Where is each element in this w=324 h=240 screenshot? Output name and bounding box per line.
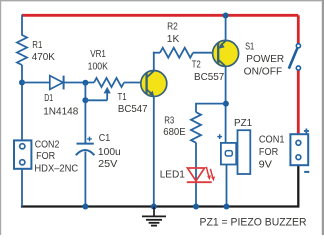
svg-text:FOR: FOR xyxy=(36,151,55,162)
svg-text:CON1: CON1 xyxy=(259,135,285,146)
svg-text:R1: R1 xyxy=(32,40,42,51)
capacitor C1 bottom curved plate xyxy=(76,150,95,155)
capacitor C1 plus sign xyxy=(87,137,92,142)
wire C1 negative lead to ground rail xyxy=(84,152,86,207)
connector CON2 body xyxy=(14,140,31,168)
connector CON1 pin 1 xyxy=(296,140,301,145)
svg-text:PZ1 = PIEZO BUZZER: PZ1 = PIEZO BUZZER xyxy=(200,217,307,229)
wire D1 cathode lead to node xyxy=(64,82,94,84)
wire D1 anode lead xyxy=(22,82,50,84)
wire red positive top rail xyxy=(22,14,298,17)
svg-text:VR1: VR1 xyxy=(90,49,106,60)
VR1 wiper arrowhead xyxy=(104,87,111,94)
switch S1 lever xyxy=(289,48,298,68)
VR1 wiper arrow stem xyxy=(106,89,108,100)
node junction T1 emitter / ground rail xyxy=(151,204,157,210)
wire T1 emitter down to ground rail xyxy=(153,96,155,207)
transistor T1 body circle xyxy=(141,71,167,97)
ground symbol bar 3 xyxy=(149,222,160,224)
svg-text:D1: D1 xyxy=(44,93,53,104)
svg-text:25V: 25V xyxy=(98,159,118,170)
wire R2 right lead to T2 base xyxy=(193,52,218,54)
node junction C1 / ground rail xyxy=(82,204,88,210)
svg-text:R3: R3 xyxy=(164,115,174,126)
svg-text:LED1: LED1 xyxy=(160,169,186,180)
svg-text:470K: 470K xyxy=(32,52,55,63)
svg-text:POWER: POWER xyxy=(246,54,284,65)
svg-text:680E: 680E xyxy=(163,127,185,138)
transistor T2 collector diagonal xyxy=(218,59,226,66)
wire R2 left lead xyxy=(153,52,160,54)
buzzer PZ1 inner pad xyxy=(225,151,232,156)
connector CON2 pin 2 xyxy=(20,160,25,165)
svg-text:PZ1: PZ1 xyxy=(234,118,252,129)
ground symbol bar 1 xyxy=(142,215,166,217)
svg-text:T2: T2 xyxy=(192,60,201,71)
LED1 triangle xyxy=(187,168,204,181)
wire wiper horizontal xyxy=(85,99,107,101)
node junction T2 collector / R3 branch xyxy=(223,101,229,107)
transistor T2 emitter arrowhead xyxy=(218,43,224,49)
buzzer PZ1 plus sign xyxy=(217,134,222,139)
wire T1 collector up to R2 xyxy=(153,52,155,71)
ground symbol stub xyxy=(153,207,155,216)
transistor T1 base bar xyxy=(145,73,147,94)
node junction D1 / VR1 / C1 branch xyxy=(82,80,88,86)
connector CON1 body xyxy=(290,134,308,165)
transistor T2 body circle xyxy=(213,40,239,66)
transistor T2 base bar xyxy=(217,43,219,64)
node junction LED1 cathode / ground rail xyxy=(193,204,199,210)
frame border top xyxy=(0,0,324,2)
CON1 minus mark xyxy=(304,171,309,173)
wire R3 branch horizontal xyxy=(196,104,226,113)
transistor T2 emitter diagonal (arrow into base, PNP) xyxy=(220,41,225,46)
buzzer PZ1 body rectangle xyxy=(238,130,251,174)
svg-text:R2: R2 xyxy=(167,21,178,32)
node junction T2 emitter / red rail xyxy=(223,13,229,19)
wire T2 collector down to PZ1 xyxy=(225,66,227,143)
svg-text:C1: C1 xyxy=(99,133,111,144)
LED1 emission arrow 2 xyxy=(210,169,213,179)
node junction left rail / D1 anode xyxy=(19,80,25,86)
svg-text:1N4148: 1N4148 xyxy=(43,106,78,117)
wire VR1 to T1 base xyxy=(124,82,146,84)
wire red right rail upper (to switch S1) xyxy=(297,15,300,43)
ground symbol bar 4 xyxy=(151,225,157,227)
potentiometer VR1 zigzag xyxy=(94,78,124,87)
svg-text:1K: 1K xyxy=(167,34,180,45)
connector CON2 pin 1 xyxy=(20,144,25,149)
svg-text:HDX–2NC: HDX–2NC xyxy=(34,163,78,174)
wire T2 emitter up to red rail xyxy=(225,15,227,41)
ground symbol bar 2 xyxy=(146,219,162,221)
node junction PZ1 / ground rail xyxy=(224,204,230,210)
transistor T1 emitter arrowhead xyxy=(149,91,154,97)
resistor R2 zigzag xyxy=(160,48,193,58)
svg-text:BC547: BC547 xyxy=(118,104,148,115)
wire left rail lower (CON2 to ground rail) xyxy=(21,169,23,207)
node junction wiper tie xyxy=(82,97,88,103)
wire left rail upper (top rail to R1) xyxy=(21,15,23,36)
buzzer PZ1 element rectangle xyxy=(221,143,236,165)
wire VR1 wiper vertical drop xyxy=(84,83,86,144)
LED1 emission arrow 1 xyxy=(206,167,209,177)
svg-text:ON/OFF: ON/OFF xyxy=(244,66,283,77)
wire ground rail black xyxy=(21,165,298,206)
svg-text:CON2: CON2 xyxy=(35,140,60,151)
frame border right xyxy=(322,0,324,235)
wire red right rail lower (switch to CON1) xyxy=(297,70,300,134)
frame border left xyxy=(0,0,2,235)
transistor T1 emitter diagonal xyxy=(146,89,152,94)
svg-text:S1: S1 xyxy=(245,41,254,52)
LED1 cathode bar xyxy=(187,181,212,183)
svg-text:9V: 9V xyxy=(259,160,273,171)
svg-text:100K: 100K xyxy=(88,62,109,73)
wire PZ1 to ground rail xyxy=(226,165,228,207)
diode D1 triangle xyxy=(50,76,63,90)
transistor T1 collector diagonal xyxy=(146,71,154,78)
wire left rail middle (R1 to CON2) xyxy=(21,65,23,141)
svg-text:T1: T1 xyxy=(118,92,127,103)
switch S1 bottom contact xyxy=(296,66,300,70)
connector CON1 pin 2 xyxy=(296,155,301,160)
CON1 plus mark xyxy=(304,129,309,134)
svg-text:FOR: FOR xyxy=(259,147,278,158)
resistor R1 zigzag xyxy=(17,35,27,65)
svg-text:BC557: BC557 xyxy=(194,72,225,83)
switch S1 top contact xyxy=(296,44,300,48)
svg-text:100u: 100u xyxy=(98,147,121,158)
diode D1 cathode bar xyxy=(63,76,65,90)
resistor R3 zigzag xyxy=(191,112,201,143)
wire R3 to LED1 xyxy=(195,143,197,207)
capacitor C1 top plate xyxy=(77,143,94,145)
